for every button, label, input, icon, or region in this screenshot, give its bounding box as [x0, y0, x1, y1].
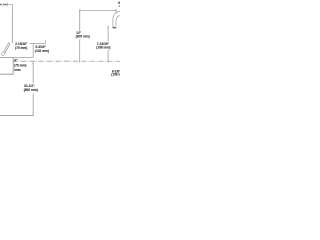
svg-text:3": 3" [14, 59, 18, 63]
svg-text:(198 mm): (198 mm) [96, 46, 110, 50]
svg-text:(132 mm): (132 mm) [35, 49, 49, 53]
svg-text:(75 mm): (75 mm) [15, 46, 27, 50]
svg-text:(156 mm): (156 mm) [111, 72, 120, 76]
svg-text:(305 mm): (305 mm) [76, 34, 90, 38]
svg-text:(800 mm): (800 mm) [24, 88, 38, 92]
svg-text:max: max [14, 68, 21, 72]
